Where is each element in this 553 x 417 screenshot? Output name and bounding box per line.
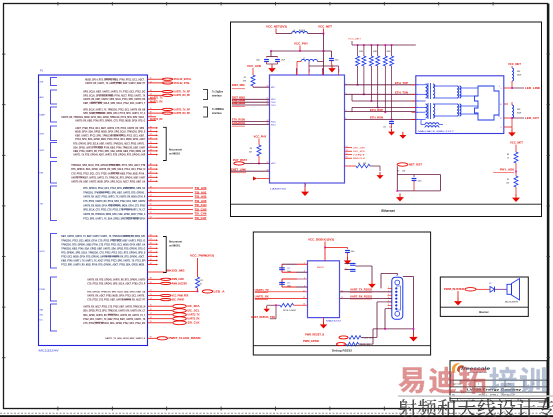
svg-text:100n: 100n — [351, 251, 355, 253]
svg-text:RXD0: RXD0 — [271, 121, 276, 123]
annotation bracket To ZigBee interface — [203, 90, 208, 100]
DB9 connector P2 — [392, 277, 403, 319]
svg-text:68: 68 — [150, 278, 152, 280]
nc pin marker — [257, 178, 270, 180]
svg-text:R16 100K: R16 100K — [283, 310, 297, 312]
termination resistor R10 — [356, 44, 360, 86]
svg-text:61: 61 — [150, 251, 152, 253]
REF clock resistor — [345, 165, 357, 167]
pin row sym y=252.3 — [61, 251, 158, 255]
wire top horizontal — [276, 33, 292, 35]
svg-text:L7: L7 — [303, 58, 305, 60]
group bracket 32K — [40, 78, 58, 86]
svg-text:UART1_TX_RTS_GPIO41_KBI7_UART2: UART1_TX_RTS_GPIO41_KBI7_UART2_RTS_GPIO4… — [73, 154, 145, 157]
svg-text:63: 63 — [150, 255, 152, 257]
LED series inductor FB3 — [512, 105, 514, 118]
svg-text:19: 19 — [150, 112, 152, 114]
title block cell dividers — [474, 380, 476, 387]
termination resistor R12 — [369, 44, 373, 102]
Buzzer section box — [440, 277, 528, 316]
pin row TSI_CH5 y=209.4 — [83, 208, 207, 212]
svg-text:KBI2_PTA6_UART0_RX_PTC3_SPI1_S: KBI2_PTA6_UART0_RX_PTC3_SPI1_SDA_GPI33_K… — [73, 150, 145, 153]
wire horizontal VCC_PHY rail — [271, 50, 324, 52]
pin row UART1_RX_RF y=95.3 — [83, 94, 190, 98]
pin row sym y=169.1 — [71, 168, 158, 172]
svg-text:RXD1: RXD1 — [271, 124, 276, 126]
pin row sym y=173.2 — [71, 172, 158, 176]
svg-text:52: 52 — [150, 212, 152, 214]
IC U2 right lower pins — [345, 147, 353, 149]
group bracket — [51, 304, 58, 331]
common mode choke — [425, 123, 439, 125]
svg-text:UART1_TX: UART1_TX — [151, 97, 163, 100]
svg-text:RTS_GPIO41_PTE2_I2C1_PTC3_SPI1: RTS_GPIO41_PTE2_I2C1_PTC3_SPI1_MOSI_GP14… — [83, 187, 145, 190]
svg-text:REFCLK: REFCLK — [353, 158, 366, 160]
svg-text:MOSI_GP14_SDA_GPI33_MOSI_GP14_: MOSI_GP14_SDA_GPI33_MOSI_GP14_SPI2_SCLK_… — [75, 131, 145, 134]
svg-text:FB2: FB2 — [517, 71, 520, 73]
svg-text:VCC_NET(3V3): VCC_NET(3V3) — [266, 26, 287, 29]
buzzer speaker LS1 — [507, 284, 512, 294]
svg-text:ETH_TXD1: ETH_TXD1 — [232, 102, 246, 105]
pin row sym y=236.1 — [61, 235, 158, 239]
pin row XTAL32_XTAL y=82.9 — [85, 81, 190, 85]
pin row sym y=127.9 — [75, 126, 158, 130]
svg-text:PWM_BUZZER: PWM_BUZZER — [444, 288, 464, 291]
svg-text:100n: 100n — [287, 271, 291, 273]
svg-text:ETH_TXP: ETH_TXP — [395, 82, 408, 85]
svg-text:36: 36 — [150, 164, 152, 166]
svg-text:SSI_CLK: SSI_CLK — [188, 322, 200, 325]
Debug RS232 section box — [253, 232, 430, 355]
svg-text:R5: R5 — [244, 77, 246, 79]
svg-text:PWRT_FLASH_DRAIN: PWRT_FLASH_DRAIN — [169, 337, 201, 340]
pin row sym y=264.5 — [61, 263, 158, 267]
pin row TSI_CH4 y=205.3 — [83, 204, 207, 208]
cap C9 with ground — [324, 50, 332, 52]
svg-text:VCC_PHY: VCC_PHY — [294, 43, 308, 46]
svg-text:PHY_AD0: PHY_AD0 — [500, 169, 515, 172]
svg-text:Ethernet: Ethernet — [381, 209, 395, 213]
svg-text:on MK201: on MK201 — [169, 154, 181, 156]
svg-text:600R: 600R — [517, 113, 522, 115]
svg-text:D2: D2 — [489, 283, 491, 285]
pin row PWM_LED0 y=279.3 — [87, 278, 184, 282]
svg-text:16: 16 — [303, 304, 305, 306]
svg-text:31: 31 — [150, 142, 152, 144]
transformer T1 top windings — [426, 83, 435, 99]
group bracket KBI — [40, 162, 58, 184]
svg-text:MDC: MDC — [271, 87, 276, 89]
ground arrow DB9 loop — [413, 333, 415, 337]
svg-text:49R9: 49R9 — [373, 51, 377, 53]
svg-text:P2: P2 — [396, 275, 398, 277]
svg-text:CTS_PTD2_PTE2_I2C1_CTS_PTD2_UA: CTS_PTD2_PTE2_I2C1_CTS_PTD2_UART0_RX_KBI… — [71, 172, 146, 175]
svg-text:2: 2 — [478, 383, 479, 385]
svg-text:LAN8700: LAN8700 — [270, 188, 287, 191]
svg-text:PWM_BUZZER: PWM_BUZZER — [172, 282, 187, 285]
svg-text:RTS_GPIO41_SPI2_SCLK_KBI7_UART: RTS_GPIO41_SPI2_SCLK_KBI7_UART2_TPM1CH1_… — [73, 143, 146, 146]
ground arrow pump — [371, 281, 373, 284]
svg-text:3: 3 — [304, 271, 305, 273]
svg-text:35: 35 — [150, 153, 152, 155]
pin row UART1_RX y=102.7 — [83, 100, 163, 105]
svg-text:UART0_RX_KBI7_UART2_MOSI_GP14_: UART0_RX_KBI7_UART2_MOSI_GP14_SPI2_SCLK_… — [71, 180, 145, 183]
clock cap ground — [379, 166, 381, 171]
module shield ground — [508, 126, 512, 128]
pin row UART3_TX y=314.7 — [83, 313, 200, 317]
annotation bracket Not present on MK201 (lower) — [163, 237, 166, 273]
pin row sym y=150.9 — [73, 149, 158, 153]
resistor pullup VCC_PWM — [197, 288, 199, 291]
svg-text:LED_LINK: LED_LINK — [525, 87, 540, 90]
svg-text:SDA_GPI33_UART1_TX_KBI2_PTA6_K: SDA_GPI33_UART1_TX_KBI2_PTA6_KBI2_PTA6_T… — [73, 146, 146, 149]
svg-text:RTS_GPIO41_SDA_GPI33_UART0_RX_: RTS_GPIO41_SDA_GPI33_UART0_RX_SPI2_SCLK_… — [71, 168, 146, 171]
svg-text:SPI2_SCLK_CTS_PTD2_CTS_PTD2_CT: SPI2_SCLK_CTS_PTD2_CTS_PTD2_CTS_PTD2_UAR… — [83, 209, 146, 212]
pin row BKGD label — [148, 271, 165, 273]
group bracket PWM — [40, 277, 58, 301]
svg-text:SPI2_SCLK_KBI7_UART2_UART1_TX_: SPI2_SCLK_KBI7_UART2_UART1_TX_PTE2_I2C1_… — [83, 91, 145, 94]
svg-text:R12: R12 — [200, 280, 203, 282]
svg-text:TPM1CH1_TPM1CH1_PTC3_SPI1_KBI7: TPM1CH1_TPM1CH1_PTC3_SPI1_KBI7_UART2_RTS… — [83, 192, 146, 195]
svg-text:75: 75 — [150, 305, 152, 307]
svg-text:40: 40 — [150, 172, 152, 174]
module J2 right pins — [504, 87, 512, 89]
svg-text:SPI2: SPI2 — [40, 150, 46, 152]
svg-text:TPM1CH1_KBI2_PTA6_SDA_GPI33_KB: TPM1CH1_KBI2_PTA6_SDA_GPI33_KBI7_UART2_S… — [61, 247, 145, 250]
svg-text:UART0_RX_KBI2_PTA6_RTS_GPIO41_: UART0_RX_KBI2_PTA6_RTS_GPIO41_CTS_PTD2_M… — [75, 120, 145, 123]
svg-text:C15: C15 — [287, 283, 290, 285]
svg-text:UART2_TX_RF: UART2_TX_RF — [174, 108, 191, 111]
RJ45 jack shape — [475, 86, 500, 120]
svg-text:interface: interface — [212, 95, 222, 98]
pin row sym y=154.6 — [73, 153, 158, 157]
pin row sym y=256.4 — [61, 255, 158, 259]
pin row XTAL32_EXTAL y=79.2 — [85, 78, 192, 82]
svg-text:12: 12 — [303, 297, 305, 299]
svg-text:TPM1CH1_RTS_GPIO41_KBI2_PTA6_C: TPM1CH1_RTS_GPIO41_KBI2_PTA6_CTS_PTD2_PT… — [61, 243, 145, 246]
pin row sym y=139.0 — [75, 137, 158, 141]
svg-text:UART0_RX_ADC7_PTB3_UART1_TX_UA: UART0_RX_ADC7_PTB3_UART1_TX_UART0_RX_MOS… — [83, 196, 145, 199]
svg-text:NET_RST: NET_RST — [409, 164, 423, 167]
svg-text:SSI: SSI — [40, 315, 44, 317]
svg-text:RTS_GPIO41_SPI2_SCLK_TPM1CH1_C: RTS_GPIO41_SPI2_SCLK_TPM1CH1_CTS_PTD2_PT… — [61, 251, 145, 254]
svg-text:UART0_RX_TPM1CH1_MOSI_GP14_SDA: UART0_RX_TPM1CH1_MOSI_GP14_SDA_GPI33_TPM… — [61, 116, 146, 119]
pin row TSI_CH7 y=218.2 — [83, 217, 207, 221]
svg-text:66: 66 — [150, 263, 152, 265]
svg-text:ADC7_PTB3_PTE2_I2C1_KBI7_UART2: ADC7_PTB3_PTE2_I2C1_KBI7_UART2_CTS_PTD2_… — [75, 127, 146, 130]
svg-text:32K: 32K — [40, 82, 44, 84]
svg-text:UART3_TX: UART3_TX — [188, 314, 200, 317]
svg-text:LED_LNK: LED_LNK — [353, 147, 366, 149]
module internal wires — [416, 85, 468, 125]
svg-text:46: 46 — [150, 191, 152, 193]
pin row UART3_RX y=318.7 — [83, 317, 200, 321]
module P1 MC13224 connector outline — [39, 75, 148, 346]
svg-text:600R: 600R — [517, 75, 522, 77]
pin row PWM_BUZZER y=283.4 — [87, 282, 187, 286]
svg-text:ETH_RXN: ETH_RXN — [370, 117, 383, 120]
svg-text:71: 71 — [150, 294, 152, 296]
svg-text:21: 21 — [267, 98, 269, 100]
svg-text:27: 27 — [150, 134, 152, 136]
svg-text:BUZZER: BUZZER — [505, 302, 519, 304]
pin row I2C_PWR y=299.6 — [87, 298, 184, 302]
pin row I2C_SDA y=306.2 — [83, 304, 199, 308]
svg-text:12: 12 — [150, 81, 152, 83]
pin row UART1_TX_RF y=91.6 — [83, 90, 190, 94]
svg-text:79: 79 — [150, 321, 152, 323]
svg-text:42: 42 — [150, 180, 152, 182]
ferrite L7 to IC — [301, 59, 318, 61]
svg-text:57: 57 — [150, 290, 152, 292]
svg-text:Debug RS232: Debug RS232 — [332, 348, 352, 352]
svg-text:VCC_PWM_PER: VCC_PWM_PER — [172, 294, 189, 297]
svg-text:UART0_RX_ADC7_PTB3_MOSI_GP14_P: UART0_RX_ADC7_PTB3_MOSI_GP14_PTE2_I2C1_U… — [87, 295, 146, 298]
svg-text:60: 60 — [150, 247, 152, 249]
svg-text:47: 47 — [150, 195, 152, 197]
pin row VCC_PWM_PER y=295.5 — [87, 294, 188, 298]
svg-text:Buzzer: Buzzer — [479, 310, 489, 314]
svg-text:16: 16 — [346, 157, 348, 159]
svg-text:14: 14 — [346, 150, 348, 152]
transformer T1 bottom windings — [426, 103, 435, 119]
TX/RX pair wires IC to magnetics — [345, 84, 416, 86]
pin row UART2_RX y=120.5 — [75, 118, 163, 123]
pin row sym y=143.5 — [73, 142, 158, 146]
svg-text:SPI2_SCLK_SPI2_SCLK_KBI2_PTA6_: SPI2_SCLK_SPI2_SCLK_KBI2_PTA6_ADC7_PTB3_… — [83, 94, 145, 97]
svg-text:2: 2 — [346, 262, 347, 264]
svg-text:VCC_DEBUG(3V3): VCC_DEBUG(3V3) — [308, 239, 334, 242]
svg-text:73: 73 — [150, 298, 152, 300]
svg-text:R9: R9 — [507, 179, 509, 181]
svg-text:PTC3_SPI1_UART0_RX_KBI2_PTA6_R: PTC3_SPI1_UART0_RX_KBI2_PTA6_RTS_GPIO41_… — [61, 264, 146, 267]
wires DB9 handshake — [377, 301, 392, 303]
svg-text:6: 6 — [346, 118, 347, 120]
svg-text:UART2_RX: UART2_RX — [151, 118, 163, 121]
svg-text:C12: C12 — [287, 268, 290, 270]
junction — [323, 33, 325, 35]
svg-text:17: 17 — [150, 108, 152, 110]
ground arrow R16 — [266, 306, 268, 309]
svg-text:I2C_SDA: I2C_SDA — [188, 305, 200, 308]
svg-text:UART1_TX_RF: UART1_TX_RF — [174, 91, 191, 94]
svg-text:TXD0: TXD0 — [271, 102, 276, 104]
long maroon loop to DB9 — [381, 273, 398, 275]
svg-text:XTAL32_EXTAL: XTAL32_EXTAL — [174, 78, 193, 81]
svg-text:20: 20 — [267, 86, 269, 88]
svg-text:R4: R4 — [358, 163, 360, 165]
svg-text:48: 48 — [150, 199, 152, 201]
svg-text:PHY_RST#: PHY_RST# — [233, 159, 248, 162]
svg-text:26: 26 — [150, 130, 152, 132]
wire buzzer — [476, 288, 490, 290]
mid coupling coils — [457, 86, 459, 98]
svg-text:VCC_NET: VCC_NET — [318, 26, 333, 29]
extra pair wires — [352, 100, 416, 102]
pin row sym y=260.4 — [61, 259, 158, 263]
svg-text:44: 44 — [150, 186, 152, 188]
footer black bar — [0, 415, 553, 417]
svg-text:49R9: 49R9 — [359, 51, 363, 53]
svg-text:PWR_RESET_B: PWR_RESET_B — [305, 333, 324, 336]
svg-text:GPIO: GPIO — [40, 251, 46, 253]
ground arrow mid — [402, 132, 404, 135]
svg-text:R8: R8 — [507, 154, 509, 156]
pin row sym y=181.3 — [71, 180, 158, 184]
svg-text:MAX3232: MAX3232 — [326, 320, 342, 323]
freescale logo icon — [452, 363, 460, 373]
ground arrow C9 — [331, 65, 333, 69]
svg-text:32: 32 — [150, 146, 152, 148]
svg-text:XTAL32_XTAL: XTAL32_XTAL — [174, 82, 191, 85]
svg-text:78: 78 — [150, 317, 152, 319]
pin row sym y=165.1 — [71, 164, 158, 168]
svg-text:interface: interface — [212, 112, 222, 115]
termination bus top wire — [352, 44, 416, 46]
diode D2 — [490, 287, 495, 293]
annotation bracket To 868MHz interface — [203, 107, 208, 117]
pin row sym y=177.3 — [71, 176, 158, 180]
svg-text:99: 99 — [150, 337, 152, 339]
svg-text:VCC_PWM(3V3): VCC_PWM(3V3) — [190, 255, 214, 258]
group bracket UART — [40, 107, 58, 122]
svg-text:29: 29 — [150, 137, 152, 139]
group bracket GPIO — [40, 234, 58, 269]
magnetics module J2 outline — [416, 76, 504, 134]
svg-text:CTS_PTD2_CTS_PTD2_KBI7_UART2_U: CTS_PTD2_CTS_PTD2_KBI7_UART2_UART0_RX_AD… — [87, 299, 145, 302]
svg-text:13: 13 — [346, 146, 348, 148]
ground arrow buzzer — [457, 298, 459, 302]
group bracket ADC — [40, 90, 58, 104]
svg-text:23: 23 — [267, 104, 269, 106]
termination resistor R15 — [390, 44, 394, 120]
svg-text:VCC_NET: VCC_NET — [508, 63, 522, 66]
svg-text:15: 15 — [346, 153, 348, 155]
svg-text:UART1_RX: UART1_RX — [151, 100, 163, 103]
svg-text:6: 6 — [388, 304, 389, 306]
ground arrow under caps — [271, 65, 273, 69]
svg-text:10: 10 — [500, 104, 502, 106]
op IC U2 LAN8700 outline — [270, 75, 345, 183]
svg-text:77: 77 — [150, 313, 152, 315]
charge pump cap C13 — [282, 278, 297, 280]
svg-text:51: 51 — [150, 208, 152, 210]
svg-text:PWM_LED0: PWM_LED0 — [172, 278, 185, 281]
title block outline — [450, 361, 547, 401]
svg-text:VCC_NET: VCC_NET — [348, 39, 362, 41]
svg-text:VCC_NET: VCC_NET — [510, 142, 524, 145]
svg-text:MDIO: MDIO — [271, 99, 276, 101]
svg-text:SDA_GPI33_PTC3_SPI1_TPM1CH1_UA: SDA_GPI33_PTC3_SPI1_TPM1CH1_UART0_RX_UAR… — [83, 310, 145, 313]
svg-text:2: 2 — [346, 93, 347, 95]
svg-text:PTC3_SPI1_SDA_GPI33_KBI2_PTA6_: PTC3_SPI1_SDA_GPI33_KBI2_PTA6_PTE2_I2C1_… — [75, 138, 146, 141]
pin row TSI_A02 y=196.5 — [83, 195, 207, 199]
svg-text:UART0_RX_ADC7_PTB3_CTS_PTD2_KB: UART0_RX_ADC7_PTB3_CTS_PTD2_KBI7_UART2_T… — [83, 305, 145, 308]
pin row sym y=240.2 — [61, 239, 158, 243]
pin row UART2_TX_RF y=109.4 — [83, 108, 190, 112]
svg-text:6: 6 — [346, 268, 347, 270]
svg-text:RTS_GPIO41_TPM1CH1_SPI2_SCLK_S: RTS_GPIO41_TPM1CH1_SPI2_SCLK_SDA_GPI33_K… — [87, 290, 145, 293]
svg-text:25: 25 — [267, 123, 269, 125]
svg-text:CTS_PTD2_UART0_RX_PTC3_SPI1_PT: CTS_PTD2_UART0_RX_PTC3_SPI1_PTE2_I2C1_KB… — [83, 200, 146, 203]
decoupling caps C7 C8 — [270, 51, 272, 57]
svg-text:UART0_RX_KBI7_UART2_SPI2_SCLK_: UART0_RX_KBI7_UART2_SPI2_SCLK_PTC3_SPI1_… — [83, 98, 145, 101]
svg-text:UART: UART — [40, 114, 47, 117]
ground arrow C15 — [347, 257, 349, 260]
IC U2 bottom pin with ground — [304, 170, 306, 184]
svg-text:ADC: ADC — [40, 96, 45, 99]
pin row TSI_A00 y=188.0 — [83, 186, 207, 190]
svg-text:LED_A: LED_A — [214, 290, 225, 293]
svg-text:SPI2_SCLK_UART1_TX_TPM1CH1_PTE: SPI2_SCLK_UART1_TX_TPM1CH1_PTE2_I2C1_UAR… — [83, 109, 145, 112]
wire VCC bus riser — [351, 41, 353, 45]
svg-text:FB3: FB3 — [517, 109, 520, 111]
pin row sym y=131.6 — [75, 130, 158, 134]
svg-text:1: 1 — [346, 83, 347, 85]
svg-text:TSI: TSI — [40, 203, 44, 205]
svg-text:ETH_RXD1: ETH_RXD1 — [232, 122, 246, 125]
svg-text:100n: 100n — [256, 60, 260, 62]
svg-text:KBI7_UART2_PTC3_SPI1_TPM1CH1_S: KBI7_UART2_PTC3_SPI1_TPM1CH1_SDA_GPI33_P… — [75, 134, 146, 137]
svg-text:UART1_RX_RF: UART1_RX_RF — [174, 94, 191, 97]
group bracket SPI2 — [40, 143, 58, 158]
svg-text:41: 41 — [150, 176, 152, 178]
IC U3 MAX3232 outline — [308, 261, 340, 318]
wire vertical VCC to IC — [323, 34, 325, 76]
svg-text:ETH_TXN: ETH_TXN — [395, 92, 408, 95]
svg-text:24: 24 — [267, 120, 269, 122]
svg-text:100n: 100n — [335, 60, 339, 62]
wire diode to speaker — [495, 288, 508, 290]
svg-text:KBI2_PTA6_UART1_TX_UART1_TX_AD: KBI2_PTA6_UART1_TX_UART1_TX_ADC7_PTB3_PT… — [61, 260, 145, 263]
Ethernet section box — [231, 22, 542, 217]
svg-text:BKGD_MS: BKGD_MS — [167, 270, 186, 273]
svg-text:BLM18: BLM18 — [299, 30, 305, 32]
svg-text:13: 13 — [341, 297, 343, 299]
svg-text:4: 4 — [304, 278, 305, 280]
svg-text:PWM: PWM — [40, 289, 46, 291]
ground arrow reset — [399, 194, 401, 198]
pin row UART2_RX_RF y=113.1 — [83, 112, 190, 116]
svg-text:12: 12 — [500, 118, 502, 120]
pin row sym y=244.2 — [61, 243, 158, 247]
svg-text:1: 1 — [304, 263, 305, 265]
termination resistor R11 — [362, 44, 366, 95]
pin row sym y=147.2 — [73, 146, 158, 150]
svg-text:57: 57 — [150, 239, 152, 241]
svg-text:64: 64 — [150, 259, 152, 261]
svg-text:MOSI_GP14_RTS_GPIO41_KBI2_PTA6: MOSI_GP14_RTS_GPIO41_KBI2_PTA6_PTE2_I2C1… — [85, 78, 146, 81]
svg-text:3: 3 — [346, 110, 347, 112]
svg-text:To 868MHz: To 868MHz — [212, 109, 225, 111]
svg-text:12: 12 — [498, 116, 500, 118]
module J2 left pins — [412, 84, 416, 86]
svg-text:70: 70 — [150, 282, 152, 284]
svg-text:PTE2_I2C1_MOSI_GP14_RTS_GPIO41: PTE2_I2C1_MOSI_GP14_RTS_GPIO41_UART0_RX_… — [61, 256, 146, 259]
IC U3 bottom ground — [323, 318, 325, 321]
svg-text:ENET_MDC: ENET_MDC — [232, 84, 245, 87]
svg-text:MC13224V: MC13224V — [39, 350, 60, 353]
svg-text:54: 54 — [150, 217, 152, 219]
svg-text:I2C_PWR: I2C_PWR — [172, 299, 184, 302]
svg-text:UART2_RX_RF: UART2_RX_RF — [174, 112, 191, 115]
svg-text:30: 30 — [267, 170, 269, 172]
svg-text:SPI1: SPI1 — [40, 133, 46, 135]
svg-text:76: 76 — [150, 309, 152, 311]
svg-text:I2C: I2C — [40, 320, 44, 322]
IC U2 top pins — [296, 68, 298, 75]
svg-text:LED_ACT: LED_ACT — [525, 117, 540, 120]
